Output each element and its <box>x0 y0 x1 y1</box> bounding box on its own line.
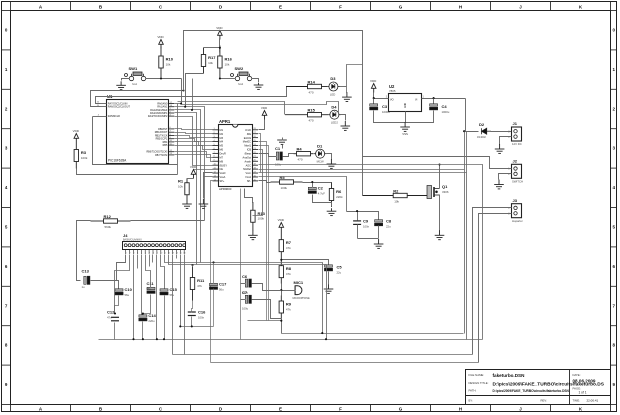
svg-text:C14: C14 <box>148 313 156 318</box>
svg-text:100k: 100k <box>281 186 288 190</box>
svg-text:22u: 22u <box>337 271 342 275</box>
wire bus to R15 feed <box>178 102 285 115</box>
LED D4 <box>328 110 341 119</box>
svg-text:RB5: RB5 <box>163 144 168 147</box>
wire J2 pin1 feed <box>363 157 512 169</box>
svg-text:CE: CE <box>220 168 224 171</box>
svg-text:ExtClk: ExtClk <box>244 137 252 140</box>
svg-text:56u: 56u <box>219 288 224 292</box>
wire U2 VI rail down to D2 <box>466 99 479 132</box>
capacitor C10 <box>115 289 123 295</box>
svg-text:R13: R13 <box>258 211 266 216</box>
svg-text:C13: C13 <box>82 268 90 273</box>
svg-text:R11: R11 <box>197 278 205 283</box>
svg-text:D1: D1 <box>317 143 323 148</box>
svg-text:C7: C7 <box>242 290 248 295</box>
svg-text:R3: R3 <box>81 150 87 155</box>
wire branch to mid ground <box>347 65 363 93</box>
svg-text:PATH:: PATH: <box>469 389 477 393</box>
connector J1 <box>512 127 522 141</box>
wire R3 bottom to bundle <box>77 169 178 175</box>
wire APR1 CE feed <box>194 170 213 171</box>
svg-text:C16: C16 <box>198 310 206 315</box>
U1 OSC pin loops around top left <box>91 87 287 107</box>
svg-text:DecR: DecR <box>220 152 226 155</box>
svg-text:E: E <box>279 5 282 10</box>
svg-text:10k: 10k <box>394 199 399 203</box>
wire R17 bottom drop <box>186 74 204 107</box>
wire APR1 to C1 and R4 row <box>259 154 294 157</box>
wire R7 R8 junction to C5 <box>282 260 329 265</box>
power flag VDD right of APR1 <box>262 111 267 120</box>
svg-text:VO: VO <box>390 98 394 101</box>
svg-text:F: F <box>339 5 342 10</box>
ground above C1 <box>277 140 287 144</box>
wire J1 pin1 to ground <box>500 137 512 145</box>
svg-text:FILE NAME:: FILE NAME: <box>469 373 485 377</box>
ground below APR1 Vss pins <box>199 199 209 208</box>
svg-text:R5: R5 <box>280 175 286 180</box>
wire APR1 Beep net to Q1 drain and down <box>259 165 483 340</box>
wire R13 bottom <box>252 230 254 232</box>
svg-text:R14: R14 <box>308 79 316 84</box>
svg-text:1N4002: 1N4002 <box>477 136 486 139</box>
svg-text:10k: 10k <box>178 184 183 188</box>
wire APR1 ICB stub down <box>253 150 263 216</box>
wire APR1 AGC net right and down <box>259 132 465 334</box>
svg-text:56u: 56u <box>125 293 130 297</box>
ground right of D1 <box>327 159 337 168</box>
svg-text:C10: C10 <box>125 287 133 292</box>
svg-text:3306: 3306 <box>442 190 449 194</box>
wire Q1 source to ground <box>439 195 441 231</box>
svg-text:C3: C3 <box>382 104 388 109</box>
ground below J2 <box>494 180 504 189</box>
svg-text:220k: 220k <box>336 195 343 199</box>
microphone MIC1 <box>295 286 302 295</box>
ground below J1 <box>495 144 505 153</box>
ground below SW1 <box>116 81 126 89</box>
svg-text:1u: 1u <box>82 285 86 289</box>
resistor R3 <box>74 143 78 169</box>
svg-text:VssD: VssD <box>220 172 226 175</box>
wire APR1 MicRef net right and down <box>259 132 467 340</box>
resistor R9 <box>279 296 283 319</box>
svg-text:R17: R17 <box>208 55 216 60</box>
resistor R16 <box>218 46 222 79</box>
capacitor C14 <box>139 315 147 321</box>
svg-text:470: 470 <box>309 119 314 123</box>
svg-text:SP+: SP+ <box>220 180 225 183</box>
wire APR1 VccD to VDD <box>259 120 265 130</box>
svg-text:MseEC: MseEC <box>243 141 251 144</box>
svg-text:C5: C5 <box>337 265 343 270</box>
svg-text:56u: 56u <box>170 293 175 297</box>
wire ground stem to C1 row <box>282 138 284 149</box>
resistor R2 <box>363 193 428 197</box>
svg-text:R10: R10 <box>166 57 174 62</box>
svg-text:AnaOut: AnaOut <box>243 156 252 159</box>
svg-text:47k: 47k <box>286 246 291 250</box>
ground below C5 <box>324 284 334 293</box>
wire vertical feed left of C6 C7 <box>240 189 242 340</box>
capacitor C13 <box>84 276 90 284</box>
wire R12 right to bundle <box>131 220 205 222</box>
microcontroller U1 PIC16F628A body <box>107 100 169 164</box>
wire SW1 right to R10 junction <box>146 78 182 80</box>
svg-text:7805: 7805 <box>389 89 396 93</box>
svg-text:faketurbo.DSN: faketurbo.DSN <box>493 373 526 378</box>
wire bus U1 RA pins descending <box>175 104 213 265</box>
wire bus U1 RB pins to APR1 M pins <box>175 129 213 162</box>
svg-text:22u: 22u <box>386 225 391 229</box>
power flag VDD above R1 <box>191 170 196 179</box>
title block frame <box>466 370 611 405</box>
svg-text:LED: LED <box>330 92 335 96</box>
power flag VDD above R10 <box>159 40 164 49</box>
svg-text:AGC: AGC <box>246 164 252 167</box>
svg-text:D:\pics\2009\FAKE_TURBO\circui: D:\pics\2009\FAKE_TURBO\circuits\faketur… <box>493 389 570 393</box>
connector J4 header <box>123 242 186 250</box>
svg-text:C1: C1 <box>275 146 281 151</box>
svg-text:C8: C8 <box>386 219 392 224</box>
svg-text:D4: D4 <box>331 104 337 109</box>
svg-text:470: 470 <box>309 90 314 94</box>
svg-text:VDD: VDD <box>73 129 80 133</box>
wire C8 C9 top rail <box>347 212 379 239</box>
svg-text:Q1: Q1 <box>442 184 448 189</box>
capacitor C6 <box>245 279 251 287</box>
svg-text:C15: C15 <box>170 287 178 292</box>
capacitor C12 <box>111 317 119 321</box>
svg-text:VssA: VssA <box>220 176 226 179</box>
capacitor C5 <box>325 265 333 271</box>
svg-text:Vccn: Vccn <box>245 172 251 175</box>
U1 left pins <box>93 104 107 117</box>
switch SW1 <box>125 72 146 81</box>
wire Q1 drain up to net <box>439 165 441 189</box>
svg-text:/RE: /RE <box>247 133 252 136</box>
wire bus net over D4 <box>181 102 339 115</box>
capacitor C15 <box>160 289 168 295</box>
svg-text:M5: M5 <box>220 145 224 148</box>
wire D4 to ground <box>341 115 346 121</box>
svg-text:MIC1: MIC1 <box>294 280 304 285</box>
ground below R13 <box>248 230 258 239</box>
wire bus SW net verticals <box>192 79 194 110</box>
svg-text:08.06.2009: 08.06.2009 <box>573 379 596 384</box>
transistor Q1 MOSFET <box>427 186 440 199</box>
wire D3 to ground <box>340 86 347 88</box>
resistor R10 <box>159 47 163 78</box>
wire APR1 Vss to ground <box>204 173 213 199</box>
svg-text:VDD: VDD <box>157 35 164 39</box>
svg-text:47k: 47k <box>286 272 291 276</box>
svg-text:RA4/T0CKI/CMP2: RA4/T0CKI/CMP2 <box>148 115 168 118</box>
resistor R17 <box>201 48 205 74</box>
svg-text:47k: 47k <box>197 284 202 288</box>
ground below Q1 <box>435 230 445 239</box>
wire SW1 left to ground <box>122 79 130 81</box>
svg-text:M4: M4 <box>220 141 224 144</box>
switch SW2 <box>231 72 252 81</box>
svg-text:47n: 47n <box>107 316 112 320</box>
svg-text:Hoparlor: Hoparlor <box>512 219 523 223</box>
wire APR1 VccA net to C8 C9 block <box>259 177 347 212</box>
capacitor C4 <box>430 104 438 110</box>
wire J2 pin2 to ground <box>499 174 512 180</box>
svg-text:10k: 10k <box>225 62 230 66</box>
svg-text:VI: VI <box>415 98 418 101</box>
svg-text:fsw2: fsw2 <box>238 83 244 86</box>
svg-text:560k: 560k <box>105 225 112 229</box>
svg-text:47k: 47k <box>286 307 291 311</box>
wire rail A <box>282 333 464 335</box>
connector J3 <box>512 204 522 218</box>
svg-text:R12: R12 <box>104 214 112 219</box>
wire R16 bottom to SW2 left <box>220 78 236 80</box>
svg-text:10k: 10k <box>166 62 171 66</box>
svg-text:D3: D3 <box>330 76 336 81</box>
svg-text:RB7/T1OSI: RB7/T1OSI <box>155 154 168 157</box>
svg-text:APR1: APR1 <box>219 119 231 124</box>
svg-text:Msel1: Msel1 <box>244 145 251 148</box>
svg-text:/BUSY: /BUSY <box>220 164 228 167</box>
svg-text:C2: C2 <box>318 186 324 191</box>
svg-text:VDD: VDD <box>261 106 268 110</box>
capacitor C2 <box>308 187 316 193</box>
wire R17 top to VDD rail <box>204 39 220 53</box>
wire U1 MCLR loop <box>93 117 178 165</box>
wire APR1 SP+ down to rail D <box>211 181 213 363</box>
svg-text:R4: R4 <box>297 147 303 152</box>
svg-text:C9: C9 <box>363 219 369 224</box>
svg-text:SW1: SW1 <box>129 66 138 71</box>
wire C13 right to C10 top <box>91 255 126 289</box>
svg-text:PIC16F628A: PIC16F628A <box>108 158 127 162</box>
capacitor C17 <box>210 283 218 289</box>
voice chip APR1 APR9600 body <box>219 125 253 187</box>
power flag VDD above R7 <box>279 223 284 232</box>
svg-text:10k: 10k <box>208 61 213 65</box>
svg-text:1 of 1: 1 of 1 <box>579 391 587 395</box>
ground below R6 <box>327 208 337 215</box>
svg-text:REV:: REV: <box>541 399 548 403</box>
wire R9 bottom to rail <box>281 319 283 334</box>
resistor R15 <box>285 113 328 117</box>
svg-text:22:00:41: 22:00:41 <box>587 399 599 403</box>
svg-text:G: G <box>399 5 403 10</box>
U2 pin wires <box>374 93 466 123</box>
svg-text:VccA: VccA <box>245 176 251 179</box>
ground VSS below U2 <box>400 122 410 131</box>
wire cap bottom connections <box>115 295 165 340</box>
svg-text:APR9600: APR9600 <box>219 187 232 191</box>
resistor R7 <box>279 232 283 260</box>
capacitor C16 <box>188 312 196 316</box>
wire rail C <box>173 354 473 356</box>
resistor R14 <box>286 84 327 88</box>
svg-text:TIME:: TIME: <box>573 399 581 403</box>
svg-text:VDD: VDD <box>190 165 197 169</box>
svg-text:H: H <box>459 407 462 412</box>
svg-text:470: 470 <box>298 158 303 162</box>
svg-text:C6: C6 <box>242 274 248 279</box>
svg-text:BASKI/CILA/ANKI: BASKI/CILA/ANKI <box>123 238 142 241</box>
resistor R11 <box>190 267 194 301</box>
LED D1 <box>314 149 327 158</box>
ground below R1 <box>182 199 192 208</box>
svg-text:MicRef: MicRef <box>243 168 251 171</box>
capacitor C3 <box>370 104 378 110</box>
svg-text:AnaIn: AnaIn <box>244 160 251 163</box>
wire SW1 net drop into bundle <box>181 79 183 104</box>
LED D3 <box>327 82 340 91</box>
wire APR1 VssA join <box>204 176 213 178</box>
svg-text:DATE:: DATE: <box>573 373 581 377</box>
resistor R12 <box>91 219 131 223</box>
resistor R6 <box>329 182 333 207</box>
svg-text:VDD: VDD <box>370 79 377 83</box>
wire SW2 right to ground <box>252 79 259 83</box>
svg-text:VccD: VccD <box>245 129 251 132</box>
wire APR1 SP to R5 <box>259 181 271 183</box>
svg-text:ICB: ICB <box>247 149 252 152</box>
wire D2 to J1 <box>491 131 512 133</box>
svg-text:R16: R16 <box>225 57 233 62</box>
J4 pin stubs and numbers <box>126 249 185 254</box>
svg-text:R15: R15 <box>308 108 316 113</box>
ground right of SW2 <box>254 83 264 89</box>
power flag VDD left of U2 <box>371 84 376 93</box>
svg-text:R1: R1 <box>178 179 184 184</box>
wire R8 to R9 and MIC1 <box>282 284 296 296</box>
svg-text:R7: R7 <box>286 240 292 245</box>
svg-text:RA6/OSC2/CLKOUT: RA6/OSC2/CLKOUT <box>108 106 131 109</box>
svg-text:SWITCH: SWITCH <box>512 180 523 184</box>
svg-text:100k: 100k <box>258 217 265 221</box>
capacitor C1 <box>276 152 282 160</box>
svg-text:LED2: LED2 <box>331 121 338 125</box>
wire D1 to ground <box>327 154 332 160</box>
wire top loop long <box>184 31 363 196</box>
svg-text:1000u: 1000u <box>442 110 450 114</box>
wire C17 R11 taps <box>192 263 214 327</box>
svg-text:R9: R9 <box>286 302 292 307</box>
wires J4 pins down <box>115 255 327 355</box>
ground below C8 C9 <box>374 239 384 248</box>
svg-text:DESIGN TITLE:: DESIGN TITLE: <box>469 381 489 385</box>
svg-text:M1: M1 <box>220 129 224 132</box>
svg-text:1000u: 1000u <box>382 110 390 114</box>
svg-text:VDD: VDD <box>216 26 223 30</box>
svg-text:J3: J3 <box>513 198 518 203</box>
svg-text:SP-: SP- <box>247 180 251 183</box>
wire R12 left loop to C13 <box>77 221 91 281</box>
svg-text:100n: 100n <box>198 316 205 320</box>
svg-text:J2: J2 <box>513 159 518 164</box>
svg-text:12V DC: 12V DC <box>512 142 522 146</box>
wire C5 bottom to ground <box>328 272 330 285</box>
svg-text:100n: 100n <box>363 225 370 229</box>
wire J3 pin1 to rail C <box>473 208 512 355</box>
capacitor C7 <box>245 295 251 303</box>
svg-text:RA5/MCLR: RA5/MCLR <box>108 115 120 118</box>
regulator U2 7805 body <box>389 94 422 112</box>
svg-text:GND: GND <box>405 103 407 108</box>
svg-text:BY:: BY: <box>469 399 474 403</box>
svg-text:M6: M6 <box>220 149 224 152</box>
svg-text:M3: M3 <box>220 137 224 140</box>
svg-text:D2: D2 <box>479 122 485 127</box>
ground right of D4 <box>341 121 351 130</box>
svg-text:C17: C17 <box>219 282 227 287</box>
ground mid sheet below branch shared with D3 <box>342 92 352 101</box>
capacitor C9 <box>353 221 361 225</box>
wire C7 stubs <box>241 300 282 319</box>
svg-text:SW2: SW2 <box>235 66 244 71</box>
capacitor C11 <box>147 287 155 293</box>
svg-text:220u: 220u <box>148 319 155 323</box>
svg-text:fsw1: fsw1 <box>132 83 138 86</box>
capacitor C8 <box>375 220 383 226</box>
wire C3 C4 bottoms to GND pin <box>374 99 434 123</box>
resistor R5 <box>271 180 303 184</box>
svg-text:R2: R2 <box>393 188 399 193</box>
wire R5 to C2 R6 <box>303 183 332 207</box>
svg-text:100k: 100k <box>81 156 88 160</box>
svg-text:G: G <box>399 407 403 412</box>
resistor R8 <box>279 260 283 284</box>
resistor R1 <box>185 179 189 200</box>
svg-text:VSS: VSS <box>402 132 408 136</box>
svg-text:C12: C12 <box>107 310 115 315</box>
wire APR1 RE ExtClk stubs down <box>259 134 261 173</box>
wire C6 stubs <box>241 284 282 291</box>
svg-text:H: H <box>459 5 462 10</box>
wire C16 C17 bottoms link <box>181 317 214 327</box>
svg-text:VDD: VDD <box>278 218 285 222</box>
svg-text:J1: J1 <box>513 121 518 126</box>
wire J3 pin2 to rail D <box>479 214 512 363</box>
connector J2 <box>512 164 522 178</box>
svg-text:MICROPHONE: MICROPHONE <box>293 297 311 300</box>
svg-text:100u: 100u <box>242 307 249 311</box>
wire rail D <box>211 362 479 364</box>
svg-text:E: E <box>279 407 282 412</box>
svg-text:F: F <box>339 407 342 412</box>
resistor R13 <box>251 202 255 231</box>
power flag VDD above R16 and R17 <box>218 31 223 40</box>
svg-text:M8: M8 <box>220 160 224 163</box>
svg-text:M2: M2 <box>220 133 224 136</box>
resistor R4 <box>294 152 314 156</box>
svg-text:MCW: MCW <box>317 160 324 164</box>
svg-text:R6: R6 <box>336 189 342 194</box>
svg-text:C4: C4 <box>442 104 448 109</box>
svg-text:/Beep: /Beep <box>244 152 251 155</box>
svg-text:R8: R8 <box>286 266 292 271</box>
power flag VDD above R3 <box>74 134 79 143</box>
svg-text:4.7uF: 4.7uF <box>318 192 325 196</box>
wire APR1 AnaIn loop to R13 <box>245 189 253 203</box>
wire VDD stem to R1 <box>187 178 194 180</box>
wire APR1 right verticals down <box>248 142 282 321</box>
svg-text:J4: J4 <box>123 233 128 238</box>
wire rail B caps common <box>99 339 483 341</box>
svg-text:M7: M7 <box>220 156 224 159</box>
diode D2 1N4002 <box>482 128 492 134</box>
